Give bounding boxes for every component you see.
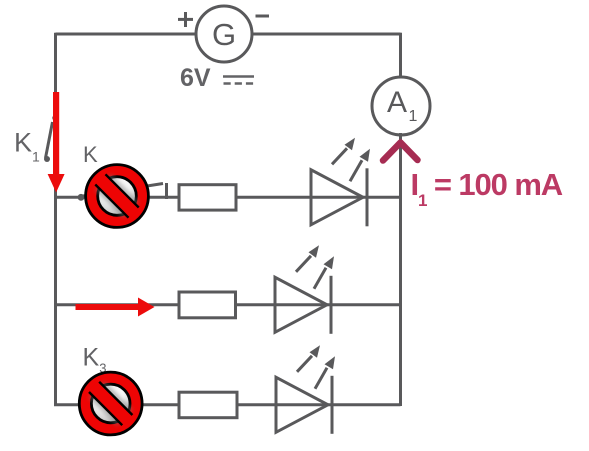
generator U1 xyxy=(178,6,269,62)
red arrow over switch K1 xyxy=(48,92,65,193)
switch K3 xyxy=(80,392,140,404)
wire right bus lower xyxy=(399,133,402,406)
svg-text:1: 1 xyxy=(409,108,418,125)
switch K1 xyxy=(44,115,59,162)
wire branch 1 xyxy=(54,196,401,199)
red arrow current branch 2 xyxy=(76,298,155,317)
switch K2 xyxy=(78,183,167,201)
resistor R3 xyxy=(179,392,237,418)
resistor R2 xyxy=(179,292,236,318)
LED D2 xyxy=(275,245,334,334)
svg-text:6V: 6V xyxy=(180,64,211,92)
LED D1 xyxy=(311,138,370,227)
resistor R1 xyxy=(179,185,236,210)
prohibition sign over K2 xyxy=(86,165,149,228)
wire branch 3 xyxy=(54,403,401,406)
current direction chevron I1 xyxy=(383,143,418,161)
svg-text:G: G xyxy=(212,17,236,52)
prohibition sign over K3 xyxy=(79,372,142,435)
wire right bus upper xyxy=(399,33,402,80)
LED D3 xyxy=(276,345,335,434)
wire left bus lower xyxy=(54,162,57,406)
DC symbol xyxy=(223,77,254,84)
wire left bus upper xyxy=(54,33,57,117)
svg-text:K: K xyxy=(83,142,98,167)
wire top horizontal xyxy=(56,33,401,36)
wire branch 2 xyxy=(54,303,401,306)
svg-text:A: A xyxy=(387,86,407,119)
ammeter A1 xyxy=(372,77,430,135)
